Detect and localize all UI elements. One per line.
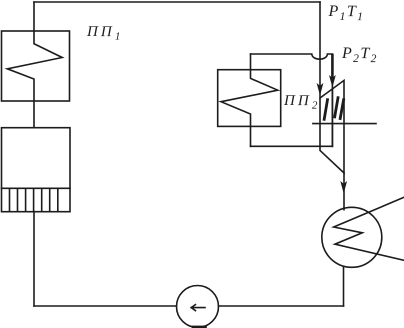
turbine outline (trapezoid) — [320, 80, 344, 173]
wire P1T1 steam down to turbine — [319, 2, 321, 98]
wire turbine exhaust to condenser — [343, 173, 345, 210]
turbine internal division (HP section wall) — [331, 89, 333, 147]
svg-text:ПП2: ПП2 — [283, 93, 321, 112]
condenser cooling water coil — [334, 197, 404, 260]
svg-text:ПП1: ПП1 — [86, 24, 124, 43]
turbine shaft line — [313, 123, 376, 125]
ПП1 coil zigzag with risers — [7, 2, 62, 128]
pump circle — [177, 286, 219, 328]
furnace grate line — [2, 187, 71, 189]
wire main steam top (ПП1 outlet to turbine) — [34, 1, 320, 3]
wire bottom right (condenser to pump) — [219, 305, 344, 307]
turbine blade stage stroke 3 — [340, 100, 343, 119]
superheater ПП1 box — [2, 31, 70, 101]
arrow P2T2 into turbine — [329, 75, 336, 88]
thick shaft of P2T2 arrow — [331, 55, 334, 79]
turbine blade stage stroke 1 — [324, 100, 327, 120]
wire cold reheat (turbine to ПП2) — [251, 145, 333, 147]
arrow into condenser — [340, 181, 347, 194]
wire bottom left (to pump) — [34, 305, 177, 307]
pump flow arrow — [191, 305, 205, 311]
ПП2 coil zigzag with risers — [221, 54, 278, 146]
wire condensate down from condenser — [343, 266, 345, 306]
furnace grate hatching — [10, 188, 58, 211]
wire left side (boiler down to bottom) — [33, 212, 35, 306]
boiler furnace box — [2, 128, 71, 212]
svg-text:P1T1: P1T1 — [327, 3, 364, 23]
svg-text:P2T2: P2T2 — [341, 45, 378, 65]
pump bottom thick mark — [193, 326, 206, 328]
turbine blade stage stroke 2 — [335, 98, 338, 117]
arrow P1T1 into turbine — [317, 83, 324, 96]
condenser circle — [322, 207, 382, 267]
wire hot reheat from ПП2 with hop over P1T1 line — [251, 54, 333, 146]
reheater ПП2 box — [218, 70, 281, 127]
